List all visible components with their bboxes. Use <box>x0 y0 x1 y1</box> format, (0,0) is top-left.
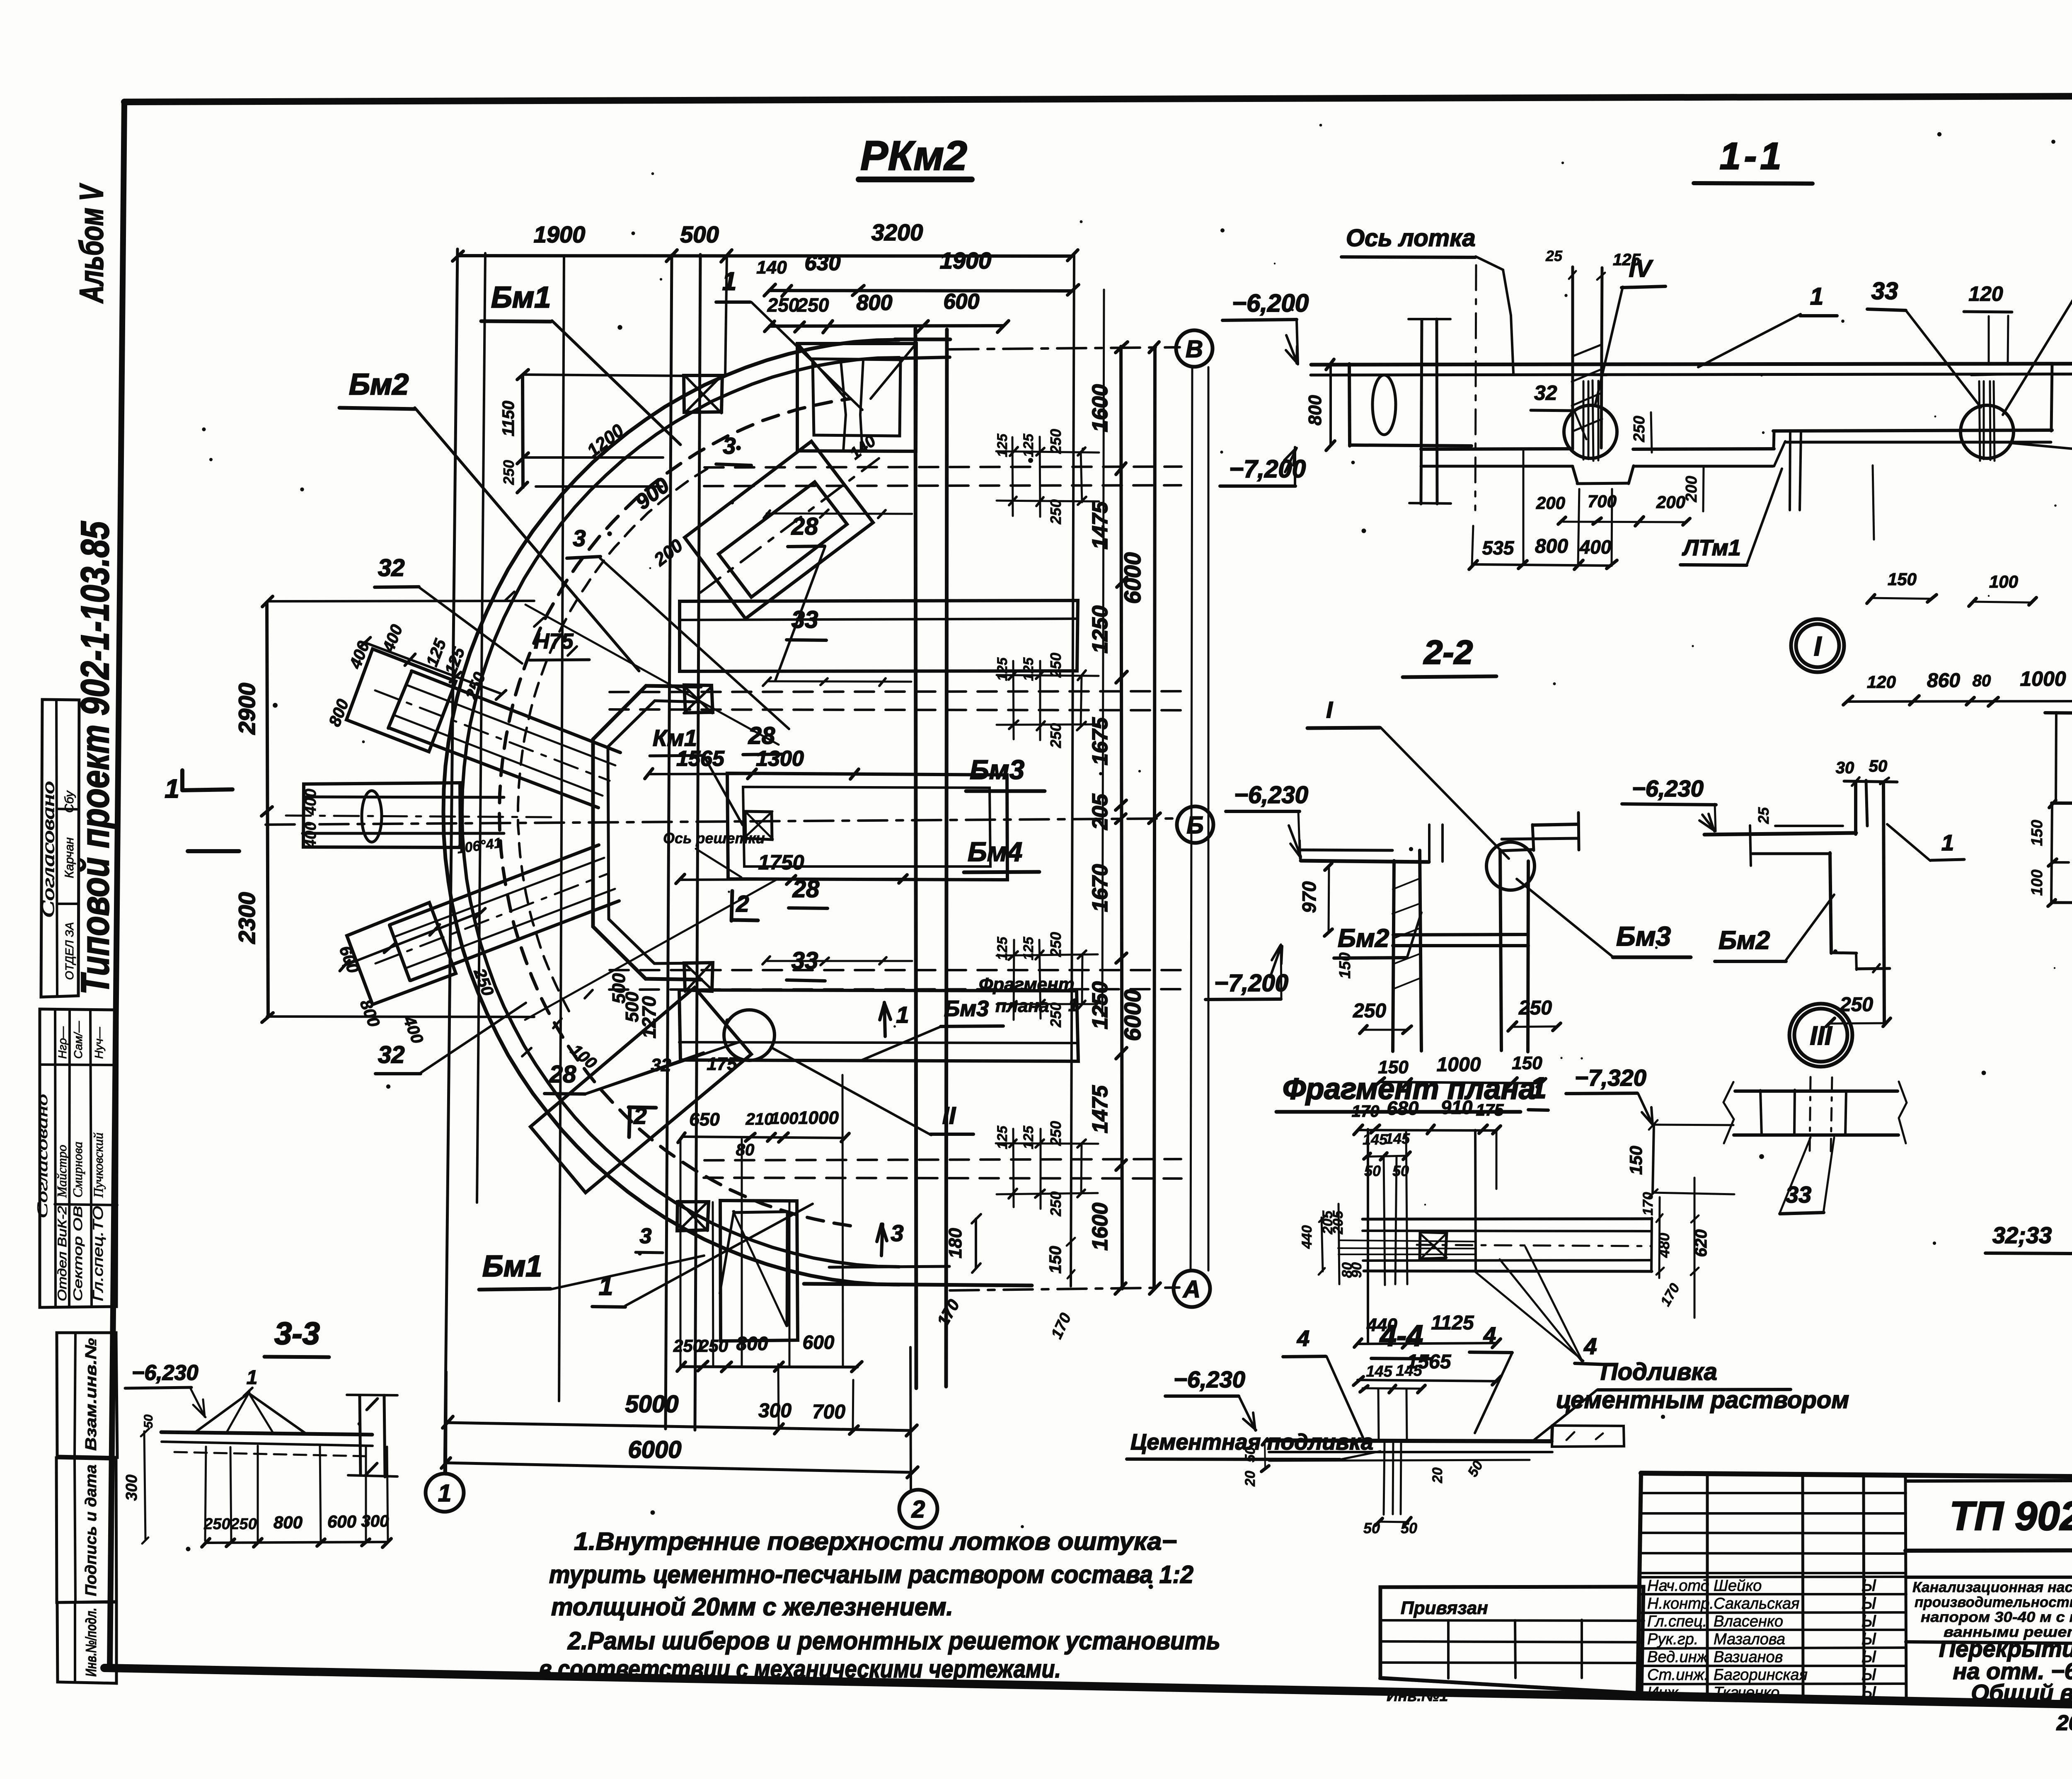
svg-text:Согласовано: Согласовано <box>39 781 58 918</box>
svg-text:250: 250 <box>1631 416 1648 442</box>
svg-text:Бм3: Бм3 <box>1616 921 1671 951</box>
svg-text:125: 125 <box>1021 937 1036 961</box>
svg-text:Бм4: Бм4 <box>968 836 1022 867</box>
svg-text:Общий вид: Общий вид <box>1971 1680 2072 1706</box>
svg-text:РКм2: РКм2 <box>860 133 967 179</box>
svg-text:400: 400 <box>1579 536 1612 558</box>
svg-text:1600: 1600 <box>1088 384 1112 432</box>
svg-text:1: 1 <box>247 1367 258 1389</box>
svg-text:2: 2 <box>736 891 749 917</box>
svg-text:700: 700 <box>812 1401 845 1423</box>
svg-text:150: 150 <box>1626 1146 1646 1175</box>
svg-text:Н.контр.: Н.контр. <box>1647 1595 1714 1612</box>
svg-text:125: 125 <box>995 937 1010 961</box>
svg-text:1: 1 <box>1941 830 1954 855</box>
svg-text:Сакальская: Сакальская <box>1714 1595 1799 1612</box>
svg-text:1600: 1600 <box>1088 1203 1112 1251</box>
svg-text:ОТДЕЛ ЗА: ОТДЕЛ ЗА <box>63 922 76 980</box>
svg-text:250: 250 <box>1047 1191 1064 1217</box>
svg-text:Карчан: Карчан <box>63 837 76 878</box>
svg-text:В: В <box>1186 336 1203 363</box>
svg-text:Пучковский: Пучковский <box>91 1133 106 1198</box>
svg-text:33: 33 <box>792 606 818 633</box>
svg-text:200: 200 <box>1683 476 1700 502</box>
svg-text:250: 250 <box>203 1515 230 1533</box>
svg-text:80: 80 <box>736 1141 755 1159</box>
svg-text:Власенко: Власенко <box>1714 1613 1783 1630</box>
svg-text:440: 440 <box>1299 1225 1315 1249</box>
svg-text:1: 1 <box>722 267 736 296</box>
svg-text:Инж.: Инж. <box>1647 1684 1682 1702</box>
svg-text:III: III <box>1810 1021 1832 1050</box>
svg-text:3: 3 <box>640 1224 652 1248</box>
svg-text:32: 32 <box>378 554 405 581</box>
svg-text:Ы: Ы <box>1861 1683 1876 1702</box>
svg-text:Вед.инж: Вед.инж <box>1647 1648 1709 1666</box>
svg-text:1: 1 <box>1810 283 1823 310</box>
svg-text:33: 33 <box>1871 278 1898 305</box>
svg-text:Ось лотка: Ось лотка <box>1346 225 1476 252</box>
svg-text:28: 28 <box>792 876 820 903</box>
svg-text:32: 32 <box>378 1041 405 1068</box>
svg-text:250: 250 <box>1047 1002 1064 1028</box>
svg-text:250: 250 <box>1047 653 1064 678</box>
svg-text:250: 250 <box>1047 499 1064 525</box>
svg-text:300: 300 <box>758 1400 792 1422</box>
svg-text:250: 250 <box>1047 429 1064 454</box>
svg-text:1: 1 <box>896 1002 909 1028</box>
svg-text:28: 28 <box>748 722 775 749</box>
svg-text:200: 200 <box>1656 492 1685 512</box>
svg-text:Отдел ВиК-2: Отдел ВиК-2 <box>56 1206 69 1301</box>
svg-text:800: 800 <box>736 1333 768 1354</box>
svg-text:−6,230: −6,230 <box>132 1361 198 1385</box>
svg-text:125: 125 <box>1021 1125 1036 1150</box>
svg-text:1475: 1475 <box>1088 501 1112 549</box>
svg-text:32: 32 <box>1534 381 1557 404</box>
svg-text:32;33: 32;33 <box>1992 1222 2052 1248</box>
svg-text:4: 4 <box>1483 1323 1496 1348</box>
svg-text:Рук.гр.: Рук.гр. <box>1647 1631 1698 1648</box>
svg-text:Сектор ОВ: Сектор ОВ <box>71 1206 85 1301</box>
svg-text:170: 170 <box>1352 1102 1380 1121</box>
svg-text:1300: 1300 <box>756 747 804 771</box>
svg-text:1475: 1475 <box>1088 1085 1112 1133</box>
svg-text:4: 4 <box>1583 1333 1597 1359</box>
svg-text:800: 800 <box>1305 395 1325 426</box>
svg-text:Бм2: Бм2 <box>1338 924 1389 953</box>
svg-text:Инв.№/подл.: Инв.№/подл. <box>82 1608 99 1677</box>
svg-text:150: 150 <box>1512 1053 1542 1073</box>
svg-text:Н75: Н75 <box>534 629 574 654</box>
svg-text:Бм2: Бм2 <box>349 368 409 401</box>
svg-text:2-2: 2-2 <box>1423 634 1473 671</box>
svg-text:−7,200: −7,200 <box>1214 970 1288 997</box>
svg-text:Ы: Ы <box>1861 1576 1876 1595</box>
svg-text:А: А <box>1182 1276 1201 1303</box>
svg-text:125: 125 <box>995 1125 1010 1150</box>
svg-text:Мазалова: Мазалова <box>1714 1631 1785 1648</box>
svg-text:1250: 1250 <box>1088 605 1112 654</box>
svg-text:150: 150 <box>1046 1246 1065 1274</box>
svg-text:1: 1 <box>599 1272 613 1301</box>
svg-text:Нгρ—: Нгρ— <box>56 1026 69 1059</box>
svg-text:Бм2: Бм2 <box>1719 926 1770 955</box>
svg-text:1670: 1670 <box>1088 864 1112 912</box>
svg-text:440: 440 <box>1366 1315 1397 1335</box>
svg-text:50: 50 <box>142 1414 155 1428</box>
svg-text:300: 300 <box>361 1512 389 1530</box>
svg-text:150: 150 <box>2028 820 2046 846</box>
svg-text:250: 250 <box>699 1336 728 1355</box>
svg-text:600: 600 <box>327 1512 356 1531</box>
svg-text:4: 4 <box>1297 1326 1310 1351</box>
svg-text:Ы: Ы <box>1861 1665 1876 1684</box>
svg-text:Бм1: Бм1 <box>491 281 551 314</box>
svg-text:Ы: Ы <box>1861 1648 1876 1666</box>
svg-text:1: 1 <box>1068 995 1078 1015</box>
svg-text:250: 250 <box>767 294 799 316</box>
svg-text:−6,200: −6,200 <box>1232 289 1309 317</box>
svg-text:25: 25 <box>1545 247 1563 264</box>
svg-text:680: 680 <box>1387 1097 1419 1119</box>
svg-text:500: 500 <box>680 221 719 247</box>
svg-text:5000: 5000 <box>625 1391 678 1418</box>
svg-text:250: 250 <box>1518 997 1552 1019</box>
svg-text:125: 125 <box>1021 433 1036 457</box>
svg-text:1000: 1000 <box>2020 667 2066 690</box>
svg-text:1565: 1565 <box>676 747 725 771</box>
svg-text:Привязан: Привязан <box>1401 1598 1488 1618</box>
svg-text:6000: 6000 <box>628 1436 681 1463</box>
svg-text:Сбу: Сбу <box>63 790 76 813</box>
svg-text:20: 20 <box>1242 1471 1258 1487</box>
svg-text:Ы: Ы <box>1861 1630 1876 1648</box>
svg-text:напором 30-40 м с механизиро-: напором 30-40 м с механизиро- <box>1921 1609 2072 1625</box>
svg-text:800: 800 <box>274 1513 303 1532</box>
svg-text:1000: 1000 <box>1437 1054 1481 1076</box>
svg-text:ТП 902-1-103.85- КЖ: ТП 902-1-103.85- КЖ <box>1949 1493 2072 1539</box>
svg-text:125: 125 <box>995 657 1010 681</box>
svg-text:Бм3: Бм3 <box>970 754 1024 785</box>
svg-text:IV: IV <box>1629 255 1653 282</box>
svg-text:620: 620 <box>1692 1230 1710 1257</box>
svg-text:Ст.инж.: Ст.инж. <box>1647 1666 1709 1684</box>
svg-text:Фрагмент: Фрагмент <box>979 974 1075 995</box>
svg-text:250: 250 <box>673 1336 702 1355</box>
svg-text:700: 700 <box>1588 491 1617 511</box>
svg-text:2: 2 <box>911 1496 925 1523</box>
svg-text:Багоринская: Багоринская <box>1714 1666 1808 1684</box>
svg-text:Бм1: Бм1 <box>482 1250 542 1283</box>
svg-text:20133 -61: 20133 -61 <box>2056 1711 2072 1735</box>
svg-text:100: 100 <box>1989 572 2018 591</box>
svg-text:Инв.№1: Инв.№1 <box>1387 1687 1448 1705</box>
svg-text:500: 500 <box>622 992 642 1022</box>
svg-text:1: 1 <box>1530 1072 1547 1105</box>
svg-text:1-1: 1-1 <box>1720 135 1785 177</box>
svg-text:120: 120 <box>1968 282 2003 305</box>
svg-text:толщиной 20мм с железнение: толщиной 20мм с железнением. <box>551 1593 953 1621</box>
svg-text:I: I <box>1326 697 1333 723</box>
svg-text:Ось решетки: Ось решетки <box>663 830 765 847</box>
svg-text:Подливка: Подливка <box>1600 1358 1717 1385</box>
svg-text:125: 125 <box>1021 657 1036 681</box>
svg-text:турить цементно-песчаным рас: турить цементно-песчаным раствором соста… <box>549 1561 1193 1588</box>
svg-text:Смирнова: Смирнова <box>70 1142 85 1198</box>
svg-text:180: 180 <box>945 1228 966 1259</box>
svg-text:120: 120 <box>1867 672 1896 692</box>
svg-text:2300: 2300 <box>234 892 260 944</box>
svg-text:50: 50 <box>1869 757 1888 775</box>
svg-text:1: 1 <box>438 1480 451 1507</box>
svg-text:175: 175 <box>1476 1101 1504 1119</box>
svg-text:Ы: Ы <box>1861 1612 1876 1630</box>
svg-text:300: 300 <box>123 1474 140 1501</box>
svg-text:480: 480 <box>1656 1233 1673 1258</box>
svg-text:3: 3 <box>891 1220 903 1246</box>
svg-text:800: 800 <box>857 291 893 315</box>
svg-text:1900: 1900 <box>534 221 586 247</box>
svg-text:ЛТм1: ЛТм1 <box>1682 535 1741 560</box>
svg-text:Гл.спец.: Гл.спец. <box>1647 1613 1707 1630</box>
svg-text:90: 90 <box>1349 1262 1365 1278</box>
svg-text:205: 205 <box>1088 794 1112 830</box>
svg-text:Взам.инв.№: Взам.инв.№ <box>82 1338 100 1451</box>
svg-text:170: 170 <box>1640 1192 1656 1216</box>
svg-text:600: 600 <box>803 1331 835 1353</box>
svg-text:6000: 6000 <box>1119 990 1145 1041</box>
svg-text:1125: 1125 <box>1431 1312 1474 1334</box>
svg-text:150: 150 <box>1888 569 1917 589</box>
svg-text:250: 250 <box>230 1515 257 1533</box>
svg-text:145: 145 <box>1363 1131 1388 1148</box>
svg-text:3-3: 3-3 <box>274 1316 320 1351</box>
svg-text:3: 3 <box>723 433 736 459</box>
svg-text:−7,320: −7,320 <box>1575 1065 1646 1091</box>
svg-text:Нач.отд: Нач.отд <box>1647 1577 1709 1595</box>
svg-text:100: 100 <box>2028 869 2046 896</box>
svg-text:100: 100 <box>771 1109 799 1128</box>
svg-text:650: 650 <box>689 1109 720 1130</box>
svg-text:970: 970 <box>1298 881 1320 913</box>
svg-text:535: 535 <box>1482 537 1515 559</box>
svg-text:33: 33 <box>1786 1181 1811 1208</box>
svg-text:−6,230: −6,230 <box>1632 775 1704 801</box>
svg-text:80: 80 <box>1973 672 1991 690</box>
svg-text:20: 20 <box>1430 1467 1445 1484</box>
svg-text:3: 3 <box>573 525 586 551</box>
svg-text:I: I <box>1814 631 1822 661</box>
svg-text:Согласовано: Согласовано <box>34 1094 51 1218</box>
svg-text:800: 800 <box>1535 535 1568 557</box>
svg-text:Вазианов: Вазианов <box>1714 1648 1783 1666</box>
svg-text:30: 30 <box>1836 759 1854 777</box>
svg-text:1750: 1750 <box>758 851 804 874</box>
svg-text:Гл.спец.ТО: Гл.спец.ТО <box>90 1206 106 1301</box>
svg-text:−6,230: −6,230 <box>1174 1366 1245 1392</box>
svg-text:6000: 6000 <box>1119 552 1145 604</box>
svg-text:в соответствии с механическ: в соответствии с механическими чертежами… <box>539 1655 1061 1683</box>
svg-text:Б: Б <box>1186 812 1203 839</box>
svg-text:630: 630 <box>805 251 841 275</box>
svg-text:400: 400 <box>302 789 320 815</box>
svg-text:Ы: Ы <box>1861 1594 1876 1612</box>
svg-text:Альбом V: Альбом V <box>73 183 110 304</box>
svg-text:910: 910 <box>1441 1096 1473 1118</box>
svg-text:Майстро: Майстро <box>54 1145 69 1198</box>
svg-text:1.Внутренние поверхности лот: 1.Внутренние поверхности лотков оштука− <box>574 1527 1177 1555</box>
svg-text:33: 33 <box>792 947 818 974</box>
svg-text:1150: 1150 <box>499 401 518 436</box>
svg-text:Подпись и дата: Подпись и дата <box>82 1464 100 1596</box>
svg-text:1000: 1000 <box>798 1108 839 1128</box>
svg-text:Шейко: Шейко <box>1714 1577 1762 1595</box>
svg-text:3200: 3200 <box>871 219 923 245</box>
svg-text:400: 400 <box>302 822 320 848</box>
svg-text:Бм3: Бм3 <box>944 996 989 1021</box>
svg-text:125: 125 <box>995 433 1010 457</box>
svg-text:145: 145 <box>1366 1363 1392 1380</box>
svg-text:50: 50 <box>1364 1162 1381 1179</box>
svg-text:28: 28 <box>549 1061 576 1088</box>
svg-text:II: II <box>942 1102 956 1129</box>
svg-text:производительностью 65-2000 м³: производительностью 65-2000 м³/ч <box>1915 1594 2072 1610</box>
svg-text:250: 250 <box>1047 723 1064 748</box>
svg-text:200: 200 <box>1536 493 1565 513</box>
svg-text:1: 1 <box>165 774 179 804</box>
svg-text:2900: 2900 <box>234 683 260 735</box>
svg-text:Нуч—: Нуч— <box>92 1026 105 1059</box>
svg-text:Цементная подливка: Цементная подливка <box>1130 1430 1373 1455</box>
svg-text:28: 28 <box>791 513 818 540</box>
svg-text:250: 250 <box>1047 932 1064 957</box>
svg-text:250: 250 <box>1047 1121 1064 1146</box>
svg-text:600: 600 <box>944 290 980 314</box>
svg-text:25: 25 <box>1755 807 1772 824</box>
svg-text:Канализационная насосная станц: Канализационная насосная станция <box>1912 1579 2072 1595</box>
svg-text:Ткаченко: Ткаченко <box>1714 1684 1779 1702</box>
svg-text:1900: 1900 <box>940 247 992 274</box>
svg-text:2.Рамы шиберов и ремонтных: 2.Рамы шиберов и ремонтных решеток устан… <box>567 1627 1220 1655</box>
svg-text:−6,230: −6,230 <box>1234 782 1308 808</box>
svg-text:250: 250 <box>797 294 829 316</box>
svg-text:150: 150 <box>1378 1057 1409 1077</box>
svg-text:860: 860 <box>1927 670 1960 692</box>
svg-text:250: 250 <box>1353 1000 1386 1022</box>
svg-text:145: 145 <box>1396 1362 1422 1380</box>
svg-text:250: 250 <box>500 460 517 485</box>
svg-text:210: 210 <box>746 1110 774 1128</box>
svg-text:плана: плана <box>995 996 1049 1016</box>
svg-text:Сам/—: Сам/— <box>72 1021 85 1059</box>
svg-text:140: 140 <box>756 257 787 278</box>
